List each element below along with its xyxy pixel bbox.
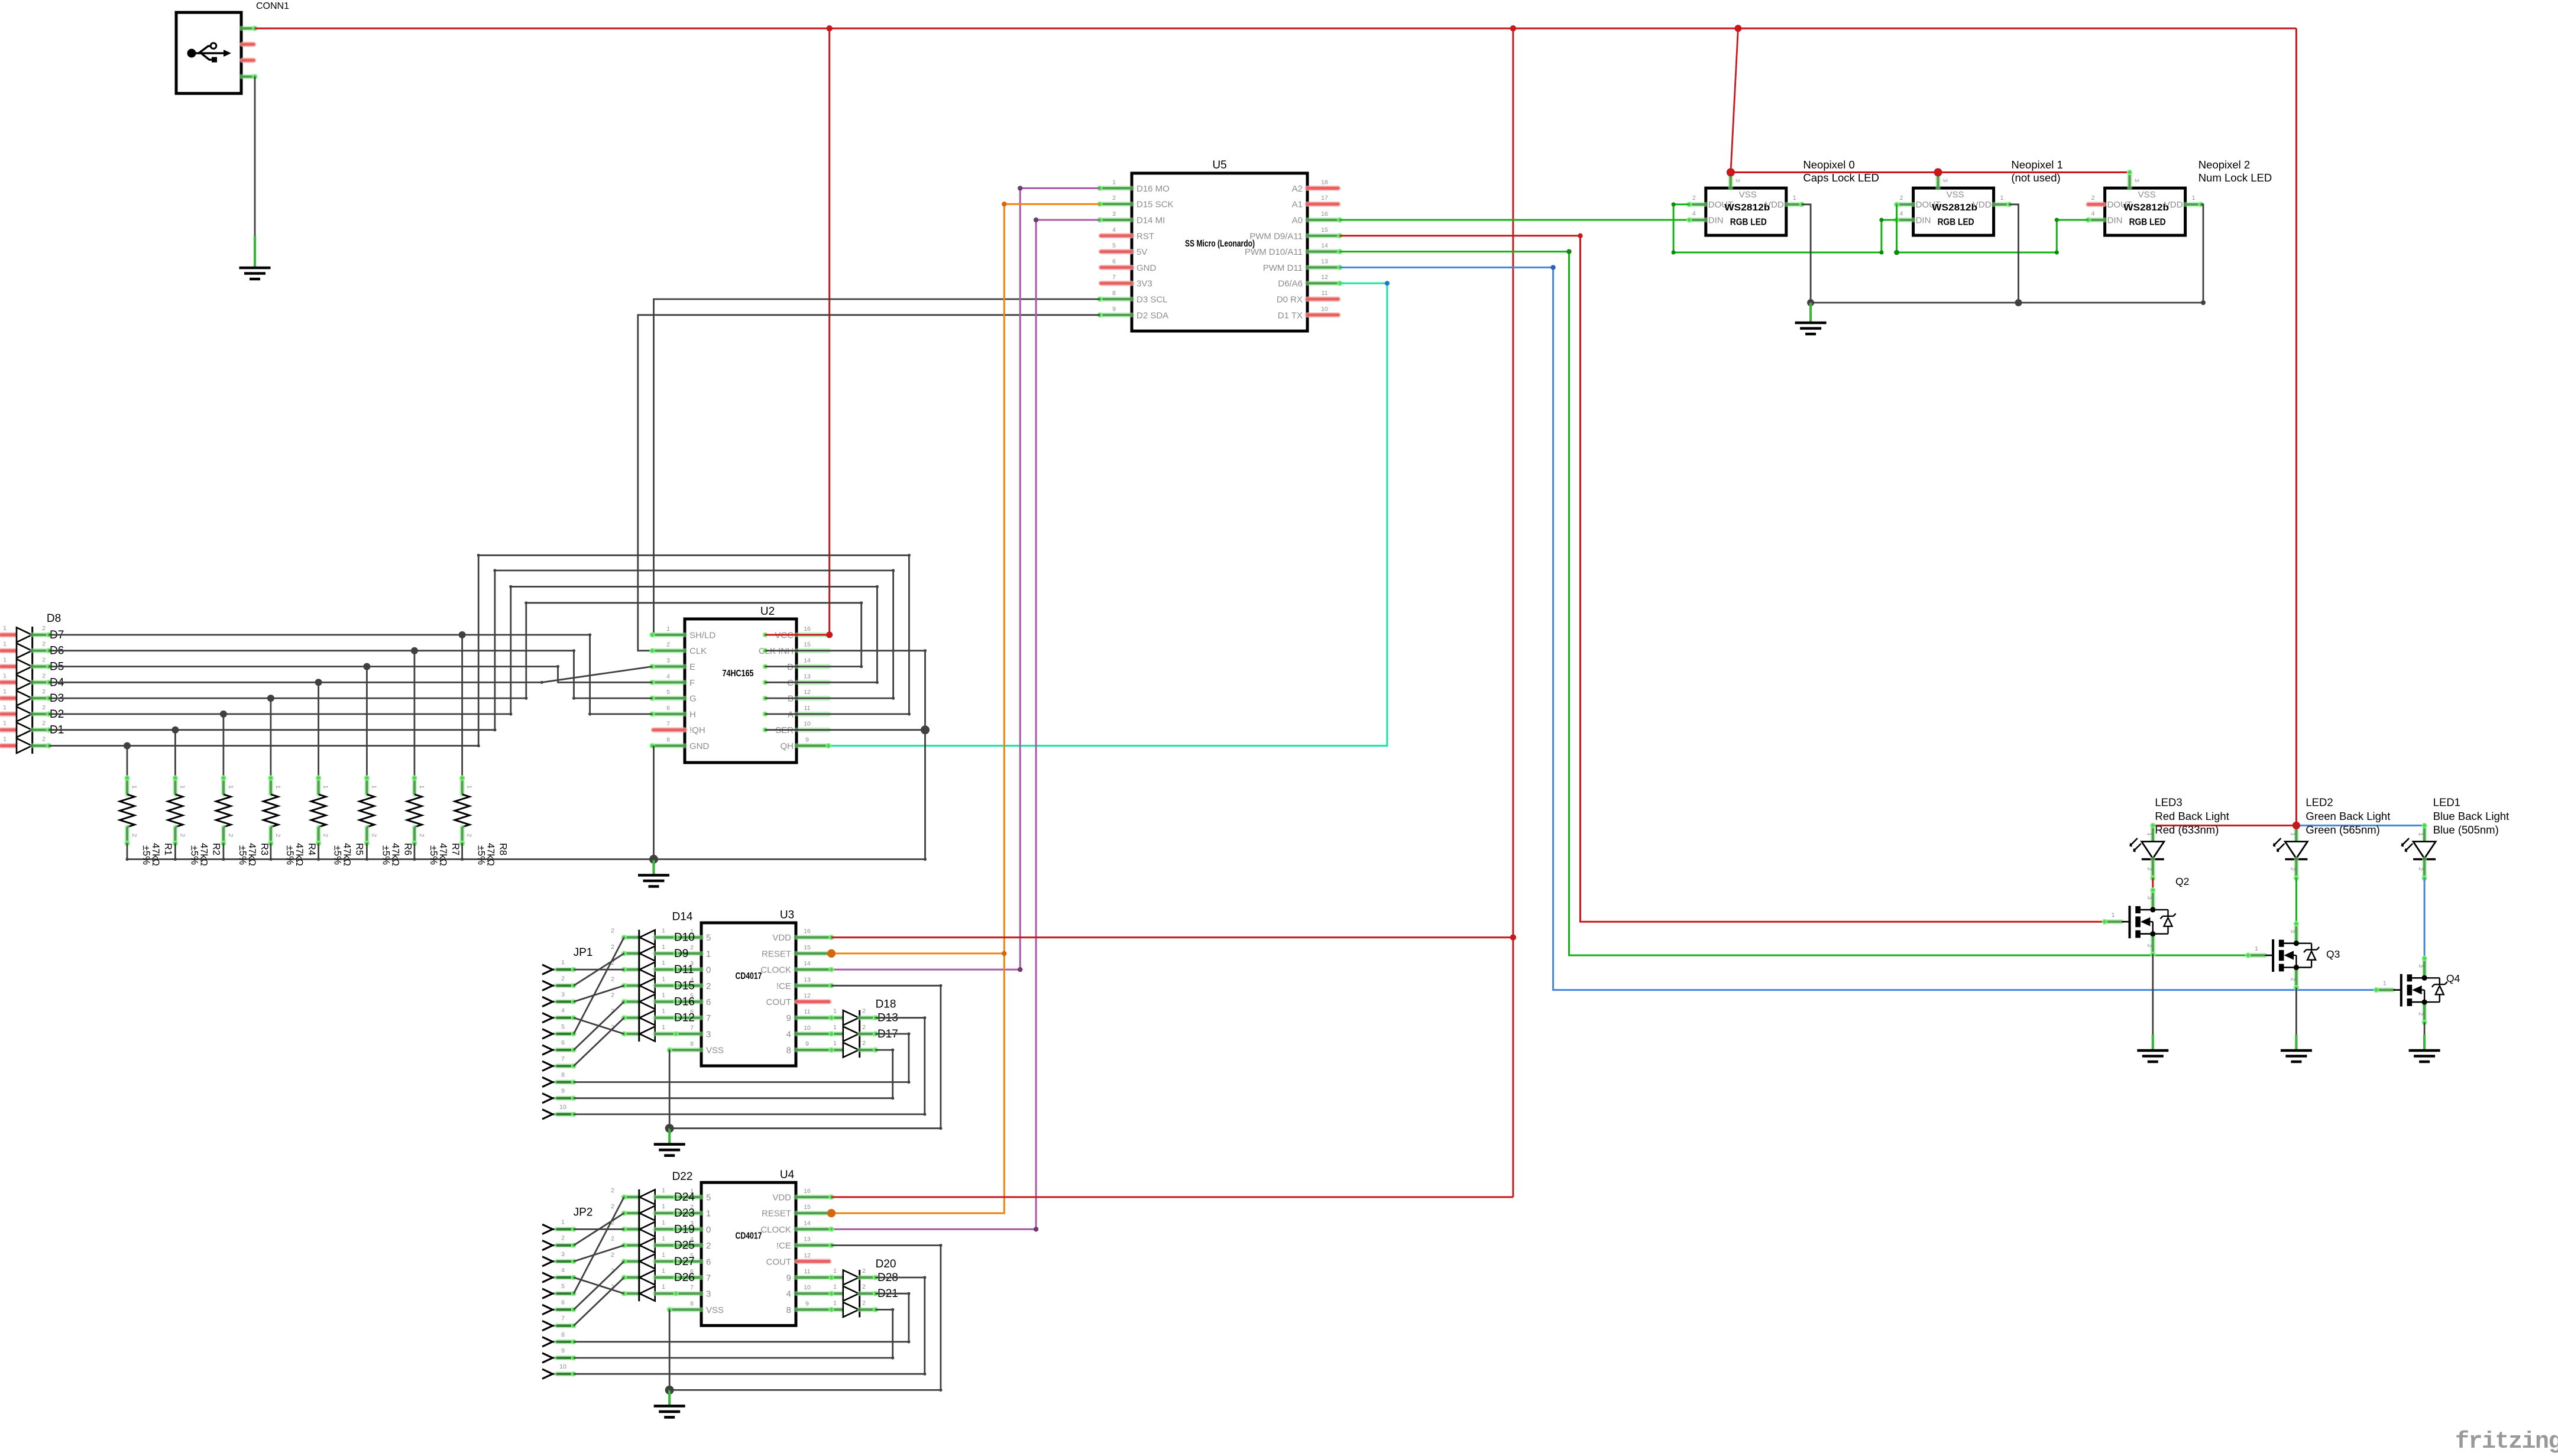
Neopixel 2 pin 2 DOUT <box>2089 202 2104 207</box>
junction U4 VSS / !CE ground <box>665 1386 674 1395</box>
svg-text:2: 2 <box>42 736 46 743</box>
U5 pin 2 D15 SCK <box>1100 202 1132 206</box>
junction +5V / Neopixel0 VSS <box>1727 168 1735 177</box>
svg-text:1: 1 <box>2255 945 2258 952</box>
svg-text:!CE: !CE <box>776 1241 791 1251</box>
svg-text:5: 5 <box>666 689 670 696</box>
JP1 pin 5 <box>542 1029 553 1039</box>
U5 pin 11 D0 RX <box>1307 297 1338 302</box>
wire: +5V drop to U3/U4 VDD <box>1512 28 1514 1197</box>
wire: U5 D2 SDA to U2 CLK (black) <box>638 315 1100 651</box>
diode D16 (into U3 pin 5) <box>624 999 639 1004</box>
svg-text:DIN: DIN <box>2107 216 2123 226</box>
wire: Neopixel VDD return bus (black) <box>1802 205 1811 303</box>
wire: U3 VDD to +5V rail (red) <box>831 936 1513 938</box>
svg-text:2: 2 <box>227 834 234 837</box>
svg-text:1: 1 <box>418 785 425 789</box>
svg-text:4: 4 <box>1112 226 1116 234</box>
svg-text:D6/A6: D6/A6 <box>1278 279 1303 289</box>
svg-text:4: 4 <box>561 1267 565 1274</box>
svg-text:11: 11 <box>1322 290 1328 297</box>
junction +5V / Neopixel1 VSS <box>1934 168 1942 177</box>
svg-text:GND: GND <box>1136 263 1157 273</box>
svg-text:4: 4 <box>1900 210 1903 218</box>
svg-text:8: 8 <box>786 1046 791 1056</box>
svg-text:(not used): (not used) <box>2011 171 2060 184</box>
diode rail (D22 stack) <box>638 1189 640 1301</box>
svg-text:14: 14 <box>804 960 811 967</box>
wire: U3 !CE to ground loop <box>669 985 941 1128</box>
svg-text:±5%: ±5% <box>237 845 248 865</box>
svg-text:PWM D11: PWM D11 <box>1263 263 1303 273</box>
svg-text:GND: GND <box>689 741 710 751</box>
svg-text:2: 2 <box>2146 944 2153 948</box>
diode D28 (from U4 pin 11) <box>831 1275 843 1280</box>
svg-text:2: 2 <box>862 1024 866 1031</box>
svg-text:1: 1 <box>662 992 665 999</box>
U5 pin 12 D6/A6 <box>1307 281 1340 286</box>
wire: D18-stack row3 cathode wrap to JP1 pin 9 <box>574 1050 892 1098</box>
svg-text:RST: RST <box>1136 231 1154 241</box>
U5 pin 5 5V <box>1101 249 1132 254</box>
diode stack D1-D8 cathode rail <box>31 627 33 754</box>
svg-text:1: 1 <box>662 1236 665 1243</box>
junction row6 / R3 <box>220 711 227 718</box>
CONN1 pin 2 <box>242 42 254 47</box>
svg-text:7: 7 <box>690 1024 694 1032</box>
svg-text:2: 2 <box>561 975 565 982</box>
matrix diode row 2 label D6 <box>1 648 17 653</box>
svg-text:2: 2 <box>418 834 425 837</box>
svg-text:2: 2 <box>2417 1012 2424 1016</box>
junction U2 GND / resistor bus <box>649 855 658 864</box>
svg-text:7: 7 <box>1112 274 1116 281</box>
JP1 pin 9 <box>542 1094 553 1103</box>
JP2 pin 8 <box>542 1337 553 1347</box>
U2 pin 5 G <box>652 696 685 701</box>
svg-text:1: 1 <box>2417 832 2424 836</box>
svg-text:Num Lock LED: Num Lock LED <box>2198 171 2272 184</box>
U5 pin 17 A1 <box>1307 202 1338 207</box>
svg-text:D9: D9 <box>674 948 688 960</box>
matrix diode row 7 label D1 <box>1 727 17 732</box>
wire: JP1 pin 5 to D14-stack row 1 <box>574 938 624 1034</box>
svg-text:LED1: LED1 <box>2433 796 2460 809</box>
svg-text:1: 1 <box>662 1008 665 1015</box>
wire: JP2 pin 5 to D22-stack row 1 <box>574 1197 624 1293</box>
svg-text:4: 4 <box>1692 210 1696 218</box>
svg-text:CLOCK: CLOCK <box>760 965 791 975</box>
svg-text:11: 11 <box>804 705 811 712</box>
diode D27 (into U4 pin 5) <box>624 1259 639 1264</box>
junction U3 VDD / +5V drop <box>1510 935 1516 941</box>
wire: +5V slant drop to Neopixel VSS bus <box>1731 28 1738 173</box>
svg-text:D15 SCK: D15 SCK <box>1136 200 1174 210</box>
wire: D13 cathode wrap to JP1 pin 10 <box>574 1018 925 1114</box>
diode D22 row7 (into U4 pin 7) <box>624 1291 639 1296</box>
svg-text:CONN1: CONN1 <box>256 1 289 11</box>
svg-text:QH: QH <box>781 741 794 751</box>
svg-text:1: 1 <box>131 785 138 789</box>
svg-text:10: 10 <box>804 721 811 728</box>
svg-text:Neopixel 0: Neopixel 0 <box>1803 158 1854 171</box>
svg-text:9: 9 <box>786 1273 791 1283</box>
svg-text:8: 8 <box>1112 290 1116 297</box>
wire: matrix row1 to U2 H pin <box>49 635 652 714</box>
svg-text:H: H <box>689 709 696 719</box>
shift register U2 body (74HC165) <box>685 619 796 763</box>
svg-text:7: 7 <box>706 1013 711 1023</box>
junction row7 / R2 <box>171 727 179 734</box>
svg-text:3: 3 <box>2146 896 2153 900</box>
svg-text:R1: R1 <box>163 843 173 855</box>
svg-text:1: 1 <box>2146 832 2153 836</box>
svg-text:15: 15 <box>804 944 811 951</box>
wire: U4 VSS down to ground <box>669 1309 671 1390</box>
svg-text:CD4017: CD4017 <box>736 1231 762 1241</box>
wire: U5 A0 to Neopixel0 DIN (green) <box>1340 219 1689 221</box>
svg-text:2: 2 <box>322 834 329 837</box>
svg-text:1: 1 <box>3 641 7 648</box>
svg-text:WS2812b: WS2812b <box>1724 203 1770 213</box>
U2 pin 15 CLK INH <box>797 648 828 653</box>
resistor R4 47kOhm <box>270 698 271 778</box>
junction row4 / R5 <box>315 679 322 686</box>
svg-text:D16: D16 <box>674 996 695 1009</box>
counter U3 body (CD4017) <box>701 923 796 1066</box>
svg-text:2: 2 <box>862 1008 866 1015</box>
diode rail (D20 stack) <box>859 1270 860 1317</box>
svg-text:1: 1 <box>1793 194 1796 202</box>
Neopixel 0 pin 3 VSS <box>1728 173 1733 189</box>
transistor Q3 (N-MOSFET) <box>2295 878 2297 924</box>
matrix diode row 6 label D2 <box>1 711 17 716</box>
U4 pin 8 VSS stub <box>669 1307 701 1312</box>
svg-text:1: 1 <box>662 1251 665 1259</box>
svg-text:E: E <box>689 662 695 672</box>
svg-text:D14: D14 <box>672 911 693 923</box>
svg-text:Q4: Q4 <box>2446 972 2460 984</box>
JP2 pin 4 <box>542 1273 553 1282</box>
wire: JP1 pin 7 to D14-stack row 6 <box>574 1018 624 1066</box>
U5 pin 9 D2 SDA <box>1100 313 1132 317</box>
svg-text:Neopixel 1: Neopixel 1 <box>2011 158 2062 171</box>
svg-text:12: 12 <box>804 993 811 1000</box>
U2 pin 6 H <box>652 712 685 716</box>
junction orange wire / U4 RESET pin <box>827 1209 836 1217</box>
U2 pin 14 D <box>797 664 828 669</box>
matrix diode row 8 <box>1 743 17 748</box>
svg-text:0: 0 <box>706 965 711 975</box>
JP1 pin 3 <box>542 997 553 1006</box>
svg-text:D11: D11 <box>674 964 694 976</box>
matrix diode row 1 label D7 <box>1 632 17 637</box>
svg-text:5V: 5V <box>1136 247 1147 257</box>
wire: +5V drop to U2 VCC <box>828 28 830 635</box>
svg-text:CLOCK: CLOCK <box>760 1225 791 1235</box>
WS2812b Neopixel 2 box <box>2105 188 2185 235</box>
svg-text:1: 1 <box>561 1218 565 1225</box>
Neopixel 2 pin 4 DIN <box>2089 218 2105 222</box>
svg-text:8: 8 <box>561 1072 565 1079</box>
svg-text:2: 2 <box>611 992 614 999</box>
Neopixel 1 pin 3 VSS <box>1935 173 1940 189</box>
Neopixel 0 pin 2 DOUT <box>1689 202 1706 207</box>
LED LED1 <box>2422 825 2427 841</box>
svg-text:JP2: JP2 <box>574 1206 593 1218</box>
junction LED anode bus / +5V drop <box>2293 822 2300 829</box>
svg-text:12: 12 <box>804 1252 811 1259</box>
diode D11 (into U3 pin 3) <box>624 967 639 972</box>
svg-text:14: 14 <box>1321 242 1328 249</box>
svg-text:DIN: DIN <box>1708 216 1724 226</box>
svg-text:10: 10 <box>804 1024 811 1032</box>
svg-text:D20: D20 <box>876 1258 896 1270</box>
svg-text:10: 10 <box>1321 306 1328 313</box>
wire: U5 D6/A6 to U2 QH (cyan) <box>828 283 1387 745</box>
svg-text:2: 2 <box>466 834 473 837</box>
svg-text:1: 1 <box>3 736 7 743</box>
Neopixel 2 pin 3 VSS <box>2127 173 2132 189</box>
svg-text:VSS: VSS <box>706 1305 724 1315</box>
diode D13 (from U3 pin 11) <box>831 1015 843 1020</box>
svg-text:6: 6 <box>706 1257 711 1267</box>
svg-text:1: 1 <box>662 975 665 982</box>
svg-text:2: 2 <box>42 641 46 648</box>
wire: LED anode bus blue segment <box>2296 825 2424 826</box>
diode D21 (from U4 pin 10) <box>831 1291 843 1296</box>
svg-text:CD4017: CD4017 <box>736 971 762 981</box>
wire: matrix row8 (to A hook) <box>49 745 479 747</box>
svg-text:D10: D10 <box>674 932 695 944</box>
svg-text:VDD: VDD <box>772 933 791 943</box>
svg-text:2: 2 <box>611 1251 614 1259</box>
svg-text:2: 2 <box>1692 194 1696 202</box>
svg-text:Caps Lock LED: Caps Lock LED <box>1803 171 1879 184</box>
svg-text:R2: R2 <box>211 843 221 855</box>
wire: D28 cathode wrap to JP2 pin 10 <box>574 1277 925 1374</box>
svg-text:2: 2 <box>666 641 670 648</box>
svg-text:D25: D25 <box>674 1240 695 1252</box>
svg-text:U2: U2 <box>760 605 775 618</box>
svg-text:±5%: ±5% <box>428 845 439 865</box>
matrix diode row 3 label D5 <box>1 664 17 669</box>
svg-text:14: 14 <box>804 657 811 664</box>
wire: +5V top power bus <box>255 28 2296 30</box>
svg-text:14: 14 <box>804 1220 811 1227</box>
ground (U3) <box>668 1129 671 1144</box>
wire: JP2 pin 6 to D22-stack row 5 <box>574 1262 624 1310</box>
svg-text:4: 4 <box>666 673 670 680</box>
svg-text:2: 2 <box>42 720 46 727</box>
svg-text:RGB LED: RGB LED <box>1938 218 1974 228</box>
svg-text:RGB LED: RGB LED <box>2129 218 2166 228</box>
wire: U4 !CE to ground loop <box>669 1246 941 1390</box>
U5 pin 18 A2 <box>1307 186 1338 191</box>
svg-text:8: 8 <box>690 1300 694 1307</box>
svg-text:1: 1 <box>561 959 565 966</box>
svg-text:1: 1 <box>662 1187 665 1194</box>
ground (U2) <box>652 860 655 875</box>
svg-text:!CE: !CE <box>776 981 791 991</box>
junction +5V bus / neopixel drop <box>1734 25 1741 32</box>
svg-text:G: G <box>689 694 697 704</box>
svg-text:2: 2 <box>862 1040 866 1047</box>
svg-text:6: 6 <box>666 705 670 712</box>
svg-text:VSS: VSS <box>706 1046 724 1056</box>
svg-text:1: 1 <box>3 704 7 711</box>
svg-text:!QH: !QH <box>689 725 705 735</box>
svg-text:2: 2 <box>2289 867 2296 871</box>
wire: Neopixel1 DOUT to Neopixel2 DIN (green) <box>1897 205 2089 252</box>
ground (neopixel) <box>1809 303 1812 323</box>
svg-text:COUT: COUT <box>766 1257 792 1267</box>
wire: LED anode bus red segment <box>2153 825 2297 826</box>
svg-text:R7: R7 <box>450 843 461 855</box>
svg-text:D14 MI: D14 MI <box>1136 216 1165 226</box>
svg-text:13: 13 <box>804 1236 811 1243</box>
U5 pin 7 3V3 <box>1101 281 1132 286</box>
svg-text:D16 MO: D16 MO <box>1136 184 1170 194</box>
wire: JP1 pin 4 to D14-stack row 7 <box>574 1018 624 1034</box>
svg-text:2: 2 <box>862 1299 866 1306</box>
svg-text:A1: A1 <box>1292 200 1303 210</box>
wire: U2 SER to GND net <box>765 729 925 731</box>
ground (Q4) <box>2423 1035 2426 1050</box>
LED LED2 <box>2294 825 2298 841</box>
U5 pin 13 PWM D11 <box>1307 265 1340 270</box>
svg-text:2: 2 <box>179 834 186 837</box>
svg-text:±5%: ±5% <box>332 845 343 865</box>
JP2 pin 7 <box>542 1321 553 1330</box>
wire: neopixel +5V bus (red) <box>1731 171 2130 173</box>
svg-text:13: 13 <box>804 673 811 680</box>
junction orange wire / U3 RESET pin <box>827 949 836 958</box>
wire: D17 cathode wrap to JP1 pin 8 <box>574 1034 909 1082</box>
JP2 pin 5 <box>542 1289 553 1298</box>
svg-text:1: 1 <box>666 625 670 633</box>
svg-text:2: 2 <box>706 981 711 991</box>
U5 pin 1 D16 MO <box>1100 186 1132 190</box>
wire: JP1 pin 2 to D14-stack row 2 <box>574 954 624 985</box>
svg-text:fritzing: fritzing <box>2455 1429 2558 1455</box>
svg-text:2: 2 <box>274 834 281 837</box>
svg-text:17: 17 <box>1321 194 1328 202</box>
CONN1 pin 3 <box>242 58 254 63</box>
Neopixel 1 pin 2 DOUT <box>1897 202 1913 207</box>
U2 pin 4 F <box>652 680 685 685</box>
wire: U4 VDD to +5V rail (red) <box>831 1196 1513 1198</box>
svg-text:2: 2 <box>42 688 46 695</box>
wire: JP1 pin 3 to D14-stack row 4 <box>574 985 624 1001</box>
svg-text:RESET: RESET <box>762 1209 791 1219</box>
svg-text:10: 10 <box>559 1363 566 1370</box>
U2 pin 1 SH/LD <box>652 633 685 637</box>
diode rail (D14 stack) <box>638 930 640 1042</box>
svg-text:4: 4 <box>786 1289 791 1299</box>
svg-text:LED2: LED2 <box>2306 796 2333 809</box>
JP2 pin 2 <box>542 1240 553 1250</box>
svg-text:D18: D18 <box>876 998 896 1011</box>
svg-text:1: 1 <box>833 1024 837 1031</box>
svg-text:9: 9 <box>786 1013 791 1023</box>
USB connector CONN1 <box>176 12 241 93</box>
svg-text:7: 7 <box>690 1284 694 1291</box>
svg-text:2: 2 <box>862 1283 866 1290</box>
U2 pin 8 GND <box>652 743 685 748</box>
svg-text:5: 5 <box>561 1023 565 1030</box>
svg-text:1: 1 <box>662 1267 665 1275</box>
svg-text:1: 1 <box>662 1283 665 1290</box>
svg-text:1: 1 <box>662 928 665 935</box>
junction row3 / R6 <box>363 663 370 670</box>
svg-text:5: 5 <box>706 933 711 943</box>
svg-text:WS2812b: WS2812b <box>2123 203 2169 213</box>
svg-text:3: 3 <box>1112 210 1116 218</box>
svg-text:D1 TX: D1 TX <box>1278 310 1303 320</box>
svg-text:2: 2 <box>42 704 46 711</box>
svg-text:9: 9 <box>561 1347 565 1354</box>
svg-text:R8: R8 <box>498 843 509 855</box>
counter U4 body (CD4017) <box>701 1182 796 1325</box>
diode D26 (into U4 pin 6) <box>624 1275 639 1280</box>
svg-text:15: 15 <box>1321 226 1328 234</box>
diode D20 row3 (from U4 pin 9) <box>831 1307 843 1312</box>
JP2 pin 3 <box>542 1257 553 1266</box>
svg-text:74HC165: 74HC165 <box>723 669 754 679</box>
U2 pin 2 CLK <box>652 648 685 653</box>
Neopixel 1 pin 4 DIN <box>1897 218 1913 222</box>
svg-text:3: 3 <box>2289 929 2296 933</box>
wire: U2 GND down to resistor bus <box>653 746 655 860</box>
svg-text:2: 2 <box>2091 194 2095 202</box>
svg-text:9: 9 <box>561 1088 565 1095</box>
svg-text:1: 1 <box>833 1040 837 1047</box>
diode D9 (into U3 pin 2) <box>624 951 639 956</box>
wire: JP2 pin 1 to D22-stack row 3 <box>574 1228 624 1230</box>
junction +5V bus / U2 drop <box>827 25 833 31</box>
svg-text:1: 1 <box>662 1219 665 1226</box>
svg-text:3: 3 <box>706 1029 711 1039</box>
wire: U5 PWM D11 to Q4 gate (blue) <box>1340 267 2376 990</box>
JP1 pin 7 <box>542 1061 553 1071</box>
svg-text:0: 0 <box>706 1225 711 1235</box>
svg-text:13: 13 <box>1321 258 1328 265</box>
diode D17 (from U3 pin 10) <box>831 1032 843 1036</box>
svg-text:4: 4 <box>786 1029 791 1039</box>
U5 pin 10 D1 TX <box>1307 312 1338 317</box>
wire: U2 VCC pin16 (red) <box>765 634 830 635</box>
svg-text:7: 7 <box>706 1273 711 1283</box>
svg-text:1: 1 <box>833 1299 837 1306</box>
svg-text:D15: D15 <box>674 980 695 992</box>
svg-text:3: 3 <box>706 1289 711 1299</box>
svg-text:1: 1 <box>662 1024 665 1031</box>
U2 pin 11 A <box>797 712 828 716</box>
svg-text:1: 1 <box>3 672 7 679</box>
svg-text:2: 2 <box>2417 867 2424 871</box>
U3 pin 8 VSS stub <box>669 1048 701 1052</box>
svg-text:VSS: VSS <box>1739 190 1757 200</box>
junction SER / CLKINH gnd net <box>921 725 930 734</box>
U5 pin 3 D14 MI <box>1100 218 1132 222</box>
svg-text:6: 6 <box>1112 258 1116 265</box>
svg-text:4: 4 <box>2091 210 2095 218</box>
svg-text:2: 2 <box>2289 978 2296 981</box>
svg-text:1: 1 <box>833 1283 837 1290</box>
svg-text:D19: D19 <box>674 1223 695 1236</box>
diode D18 row3 (from U3 pin 9) <box>831 1048 843 1052</box>
